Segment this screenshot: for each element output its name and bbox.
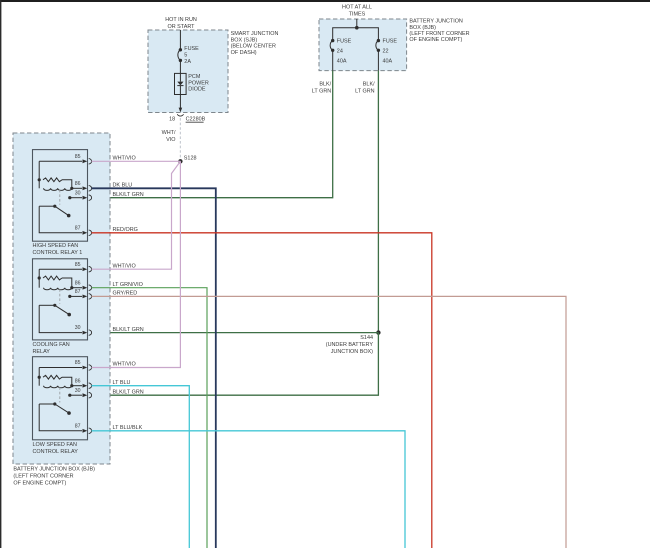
svg-text:40A: 40A	[383, 59, 393, 65]
svg-text:86: 86	[75, 378, 81, 384]
svg-text:BATTERY JUNCTION: BATTERY JUNCTION	[409, 19, 463, 25]
svg-text:PCM: PCM	[188, 74, 201, 80]
wire BLK/LT GRN fuse 24 to relay1 pin 30	[92, 71, 333, 198]
svg-text:(BELOW CENTER: (BELOW CENTER	[231, 44, 276, 50]
svg-text:HIGH SPEED FAN: HIGH SPEED FAN	[33, 243, 79, 249]
svg-text:VIO: VIO	[166, 137, 175, 143]
relay K2 cooling fan relay pin number labels	[75, 262, 81, 331]
node S128	[178, 156, 196, 164]
relay K1 high speed fan control relay 1 coil pin 85 wire	[39, 160, 82, 162]
battery junction box (BJB) enclosure	[319, 19, 407, 71]
svg-text:SMART JUNCTION: SMART JUNCTION	[231, 31, 279, 37]
relay K1 high speed fan control relay 1 pin number labels	[75, 154, 81, 232]
wire BLK/LT GRN S144 to relay2 pin 30	[92, 332, 379, 334]
svg-text:BLK/: BLK/	[319, 82, 331, 88]
svg-text:18: 18	[169, 117, 175, 123]
relay K3 low speed fan control relay actuator link	[59, 387, 61, 402]
node S144	[326, 330, 381, 355]
wire LT GRN/VIO relay2 pin86 down off page	[92, 288, 208, 548]
svg-text:DIODE: DIODE	[188, 87, 206, 93]
svg-text:TIMES: TIMES	[349, 11, 366, 17]
relay K3 low speed fan control relay switch pin 87 wire	[39, 404, 82, 431]
wire color label WHT/ VIO	[162, 130, 176, 143]
svg-text:WHT/: WHT/	[162, 130, 176, 136]
relay K3 low speed fan control relay coil resistor	[38, 376, 41, 379]
svg-text:LT GRN/VIO: LT GRN/VIO	[113, 282, 143, 288]
relay K1 high speed fan control relay 1 switch fixed contact pin 30	[68, 196, 71, 199]
svg-text:87: 87	[75, 423, 81, 429]
svg-text:RELAY: RELAY	[33, 349, 51, 355]
battery junction box relay enclosure	[13, 133, 110, 464]
wire color label BLK/ LT GRN (fuse 22)	[355, 82, 375, 95]
svg-text:BOX (SJB): BOX (SJB)	[231, 37, 258, 43]
svg-text:30: 30	[75, 325, 81, 331]
relay K1 high speed fan control relay 1 actuator link	[59, 190, 61, 205]
svg-text:2A: 2A	[184, 59, 191, 65]
svg-text:BLK/LT GRN: BLK/LT GRN	[113, 327, 144, 333]
feed bus wire	[333, 28, 379, 41]
wire DK BLU relay1 pin86 down off page	[92, 188, 216, 548]
wire BLK/LT GRN fuse 22 down to S144	[377, 71, 379, 333]
svg-text:RED/ORG: RED/ORG	[113, 227, 138, 233]
wire color label BLK/ LT GRN (fuse 24)	[312, 82, 332, 95]
fuse F22 value label	[383, 39, 398, 65]
svg-text:OF ENGINE COMPT): OF ENGINE COMPT)	[409, 37, 462, 43]
relay K3 low speed fan control relay coil pin 86 wire	[72, 385, 82, 387]
wire BLK/LT GRN S144 to relay3 pin 30	[92, 333, 379, 396]
PCM power diode	[175, 73, 187, 94]
wire WHT/VIO C2280B to S128	[179, 118, 181, 161]
SJB name label	[231, 31, 279, 56]
wire WHT/VIO relay1 pin85 to S128	[92, 160, 181, 162]
wire LT BLU relay3 pin86 down off page	[92, 386, 190, 548]
relay K3 name label	[33, 442, 79, 455]
relay K3 low speed fan control relay coil pin 85 wire	[39, 367, 82, 369]
junction node of fuse feed bus	[355, 26, 359, 30]
svg-text:LT BLU: LT BLU	[113, 380, 131, 386]
svg-text:87: 87	[75, 289, 81, 295]
relay K2 cooling fan relay switch arm	[39, 304, 55, 306]
relay K1 high speed fan control relay 1 body	[33, 150, 88, 242]
svg-text:LOW SPEED FAN: LOW SPEED FAN	[33, 442, 77, 448]
power feed label HOT IN RUN OR START	[165, 17, 197, 30]
svg-text:40A: 40A	[337, 59, 347, 65]
relay K3 low speed fan control relay switch arm	[39, 403, 55, 405]
svg-text:85: 85	[75, 262, 81, 268]
relay K2 cooling fan relay switch fixed contact pin 87	[68, 295, 71, 298]
svg-text:WHT/VIO: WHT/VIO	[113, 362, 136, 368]
svg-text:LT GRN: LT GRN	[312, 88, 332, 94]
svg-text:WHT/VIO: WHT/VIO	[113, 156, 136, 162]
relay K3 low speed fan control relay pin number labels	[75, 360, 81, 429]
svg-text:86: 86	[75, 280, 81, 286]
svg-text:85: 85	[75, 154, 81, 160]
relay K3 low speed fan control relay coil winding	[44, 386, 72, 388]
relay K2 cooling fan relay coil winding	[44, 288, 72, 290]
svg-text:86: 86	[75, 181, 81, 187]
svg-text:COOLING FAN: COOLING FAN	[33, 342, 70, 348]
svg-text:CONTROL RELAY: CONTROL RELAY	[33, 449, 79, 455]
relay K2 cooling fan relay coil pin 86 wire	[72, 287, 82, 289]
svg-text:WHT/VIO: WHT/VIO	[113, 263, 136, 269]
relay K3 low speed fan control relay body	[33, 357, 88, 440]
svg-text:S128: S128	[184, 156, 197, 162]
wire LT BLU/BLK relay3 pin87 down off page	[92, 431, 406, 548]
connector C2280B label	[186, 117, 206, 123]
wire WHT/VIO bus S128 down to relay3 pin85	[92, 161, 181, 367]
svg-text:FUSE: FUSE	[383, 39, 398, 45]
svg-text:FUSE: FUSE	[184, 46, 199, 52]
wire GRY/RED relay2 pin87 down off page	[92, 296, 567, 548]
power feed label HOT AT ALL TIMES	[342, 4, 372, 17]
relay K2 cooling fan relay coil resistor	[38, 276, 41, 279]
fuse F5 value label	[184, 46, 199, 65]
fuse F24 40A	[330, 39, 334, 71]
svg-text:87: 87	[75, 225, 81, 231]
relay K1 high speed fan control relay 1 coil pin 86 wire	[72, 187, 82, 189]
svg-text:HOT IN RUN: HOT IN RUN	[165, 17, 197, 23]
svg-text:24: 24	[337, 48, 343, 54]
svg-text:BATTERY JUNCTION BOX (BJB): BATTERY JUNCTION BOX (BJB)	[13, 467, 95, 473]
relay K1 high speed fan control relay 1 coil resistor	[38, 178, 41, 181]
fuse F22 40A	[376, 39, 380, 71]
svg-text:22: 22	[383, 48, 389, 54]
svg-text:(LEFT FRONT CORNER: (LEFT FRONT CORNER	[409, 31, 469, 37]
svg-text:LT BLU/BLK: LT BLU/BLK	[113, 425, 143, 431]
PCM power diode label	[188, 74, 209, 92]
svg-text:OF DASH): OF DASH)	[231, 50, 257, 56]
svg-text:S144: S144	[360, 335, 373, 341]
svg-text:DK BLU: DK BLU	[113, 182, 133, 188]
relay K3 low speed fan control relay switch fixed contact pin 30	[68, 394, 71, 397]
svg-text:OR START: OR START	[168, 24, 196, 30]
svg-text:BLK/: BLK/	[363, 82, 375, 88]
wire WHT/VIO relay2 pin85 up to S128	[92, 161, 181, 269]
relay K2 cooling fan relay body	[33, 259, 88, 340]
connector C2280B cup	[177, 114, 183, 116]
svg-text:C2280B: C2280B	[186, 117, 206, 123]
relay K2 cooling fan relay actuator link	[59, 289, 61, 304]
svg-text:OF ENGINE COMPT): OF ENGINE COMPT)	[13, 481, 66, 487]
svg-text:30: 30	[75, 388, 81, 394]
svg-text:BOX (BJB): BOX (BJB)	[409, 25, 436, 31]
svg-text:CONTROL RELAY 1: CONTROL RELAY 1	[33, 250, 83, 256]
svg-text:85: 85	[75, 360, 81, 366]
svg-text:HOT AT ALL: HOT AT ALL	[342, 4, 372, 10]
svg-text:FUSE: FUSE	[337, 39, 352, 45]
relay K2 cooling fan relay coil pin 85 wire	[39, 268, 82, 270]
relay K1 high speed fan control relay 1 switch arm	[39, 205, 55, 207]
svg-text:JUNCTION BOX): JUNCTION BOX)	[331, 349, 373, 355]
svg-text:30: 30	[75, 190, 81, 196]
smart junction box (SJB) enclosure	[148, 30, 228, 113]
wire fuse 5 to PCM power diode	[179, 60, 181, 73]
relay K2 name label	[33, 342, 70, 355]
svg-text:(UNDER BATTERY: (UNDER BATTERY	[326, 342, 374, 348]
svg-text:BLK/LT GRN: BLK/LT GRN	[113, 389, 144, 395]
relay enclosure BJB label	[13, 467, 95, 487]
wire feed drop to junction	[356, 19, 358, 28]
wire RED/ORG relay1 pin87 down off page	[92, 233, 432, 548]
BJB name label	[409, 19, 469, 44]
relay K1 high speed fan control relay 1 switch pin 87 wire	[39, 206, 82, 233]
svg-text:GRY/RED: GRY/RED	[113, 291, 138, 297]
svg-text:LT GRN: LT GRN	[355, 88, 375, 94]
svg-text:POWER: POWER	[188, 80, 209, 86]
svg-text:(LEFT FRONT CORNER: (LEFT FRONT CORNER	[13, 474, 73, 480]
wire diode to connector C2280B	[179, 95, 181, 112]
svg-text:5: 5	[184, 53, 187, 59]
relay K1 high speed fan control relay 1 coil winding	[44, 188, 72, 190]
fuse F5 2A	[178, 48, 182, 62]
relay K2 cooling fan relay switch pin 30 wire	[39, 305, 82, 332]
wire feed to fuse 5	[179, 30, 181, 50]
fuse F24 value label	[337, 39, 352, 65]
svg-text:BLK/LT GRN: BLK/LT GRN	[113, 192, 144, 198]
relay K1 name label	[33, 243, 83, 256]
